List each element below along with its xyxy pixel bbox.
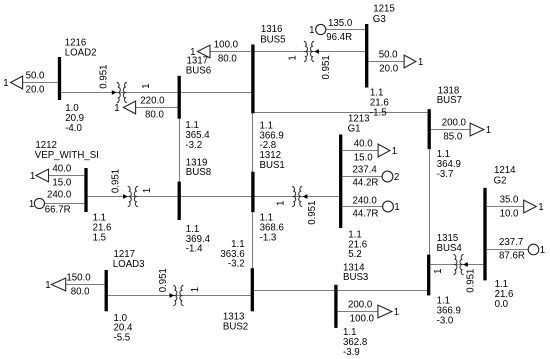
transformer BUS4-G2	[433, 254, 476, 293]
wire BUS6 to BUS8 link	[179, 119, 181, 182]
wire BUS7 to BUS4 link	[429, 149, 431, 254]
svg-text:150.0: 150.0	[66, 273, 91, 284]
svg-text:G2: G2	[494, 175, 507, 186]
svg-text:LOAD3: LOAD3	[113, 259, 145, 270]
load on BUS5	[190, 40, 251, 65]
svg-text:-3.7: -3.7	[437, 169, 454, 180]
svg-text:LOAD2: LOAD2	[65, 47, 97, 58]
svg-text:80.0: 80.0	[218, 54, 237, 65]
svg-text:87.6R: 87.6R	[499, 251, 525, 262]
wire LOAD2 to BUS6 to BUS5	[60, 92, 253, 94]
generator 1 on G2	[487, 237, 545, 262]
svg-text:44.7R: 44.7R	[353, 209, 379, 220]
load on LOAD2	[3, 71, 58, 96]
svg-text:1: 1	[114, 103, 119, 114]
svg-text:1: 1	[29, 199, 34, 210]
svg-text:1: 1	[30, 171, 35, 182]
load on G1	[342, 139, 397, 164]
svg-text:1: 1	[538, 202, 543, 213]
svg-text:BUS1: BUS1	[260, 160, 285, 171]
load on G2	[487, 195, 544, 220]
transformer BUS5-G3	[288, 41, 332, 79]
svg-text:1: 1	[288, 55, 299, 60]
svg-text:BUS2: BUS2	[223, 321, 248, 332]
svg-text:1: 1	[418, 57, 423, 68]
svg-text:1: 1	[141, 83, 152, 88]
svg-text:G3: G3	[373, 14, 386, 25]
svg-text:220.0: 220.0	[140, 96, 165, 107]
svg-text:20.0: 20.0	[26, 85, 45, 96]
svg-text:0.951: 0.951	[99, 64, 110, 88]
svg-text:BUS5: BUS5	[260, 34, 285, 45]
svg-text:-3.0: -3.0	[437, 315, 454, 326]
svg-text:-1.3: -1.3	[260, 233, 277, 244]
svg-text:240.0: 240.0	[47, 190, 72, 201]
bus 1313 BUS2	[220, 239, 254, 332]
transformer VEP-BUS8	[110, 169, 153, 207]
svg-text:0.0: 0.0	[495, 299, 509, 310]
svg-text:1: 1	[190, 287, 201, 292]
wire BUS2 to BUS3 to BUS4	[252, 290, 428, 292]
svg-text:-1.5: -1.5	[370, 107, 387, 118]
svg-text:-5.5: -5.5	[114, 333, 131, 344]
svg-text:135.0: 135.0	[328, 18, 353, 29]
bus 1318 BUS7	[428, 85, 462, 180]
svg-text:96.4R: 96.4R	[326, 32, 352, 43]
svg-text:0.951: 0.951	[110, 169, 121, 193]
generator 1 on G1	[342, 196, 399, 220]
svg-text:1: 1	[3, 78, 8, 89]
svg-text:40.0: 40.0	[52, 164, 71, 175]
svg-text:VEP_WITH_SI: VEP_WITH_SI	[35, 150, 99, 161]
svg-text:35.0: 35.0	[500, 195, 519, 206]
svg-text:44.2R: 44.2R	[353, 177, 379, 188]
bus 1319 BUS8	[178, 158, 212, 255]
svg-text:100.0: 100.0	[350, 314, 375, 325]
svg-text:0.951: 0.951	[465, 269, 476, 293]
generator 1 on G3	[309, 18, 365, 43]
load on G3	[368, 50, 423, 75]
svg-text:1: 1	[190, 47, 195, 58]
load on BUS7	[431, 118, 491, 143]
svg-text:240.0: 240.0	[353, 196, 378, 207]
svg-text:5.2: 5.2	[348, 249, 361, 260]
svg-text:0.951: 0.951	[307, 201, 318, 225]
svg-text:BUS4: BUS4	[437, 243, 463, 254]
bus 1215 G3	[365, 4, 395, 119]
svg-text:15.0: 15.0	[52, 178, 71, 189]
load on LOAD3	[45, 273, 104, 298]
bus 1314 BUS3	[334, 262, 368, 358]
transformer LOAD3-BUS2	[158, 268, 201, 306]
svg-text:G1: G1	[348, 123, 361, 134]
svg-text:1: 1	[486, 125, 491, 136]
svg-text:1: 1	[394, 202, 399, 213]
svg-text:1: 1	[45, 280, 50, 291]
svg-text:1: 1	[276, 201, 287, 206]
wire VEP to BUS8 to BUS1 to G1	[86, 196, 341, 198]
svg-text:200.0: 200.0	[442, 118, 467, 129]
wire BUS5 to BUS1 link	[252, 113, 254, 171]
svg-text:10.0: 10.0	[500, 209, 519, 220]
svg-text:BUS3: BUS3	[343, 272, 368, 283]
bus 1317 BUS6	[178, 56, 212, 151]
transformer LOAD2-BUS6	[99, 64, 152, 102]
generator 1 on VEP_WITH_SI	[29, 190, 84, 216]
svg-text:1: 1	[540, 245, 545, 256]
svg-text:15.0: 15.0	[354, 153, 373, 164]
svg-text:66.7R: 66.7R	[45, 204, 71, 215]
bus 1315 BUS4	[427, 233, 462, 326]
transformer BUS1-G1	[276, 186, 318, 225]
svg-text:1.5: 1.5	[93, 233, 106, 244]
svg-text:1: 1	[142, 188, 153, 193]
svg-text:1: 1	[309, 25, 314, 36]
wire BUS4 to G2	[429, 264, 485, 266]
bus 1216 LOAD2	[58, 38, 97, 134]
svg-text:1: 1	[392, 146, 397, 157]
bus 1212 VEP_WITH_SI	[35, 140, 112, 243]
svg-text:1: 1	[394, 307, 399, 318]
svg-text:0.951: 0.951	[321, 55, 332, 79]
svg-text:BUS8: BUS8	[186, 167, 211, 178]
svg-text:237.4: 237.4	[353, 164, 378, 175]
svg-text:-3.2: -3.2	[228, 259, 245, 270]
svg-text:80.0: 80.0	[145, 110, 164, 121]
wire BUS5 to BUS7	[253, 112, 428, 114]
bus 1214 G2	[483, 165, 516, 310]
generator 2 on G1	[342, 164, 399, 188]
bus 1312 BUS1	[251, 120, 285, 243]
svg-text:50.0: 50.0	[26, 71, 45, 82]
load on BUS6	[114, 96, 177, 121]
svg-text:BUS6: BUS6	[186, 65, 211, 76]
svg-text:40.0: 40.0	[354, 139, 373, 150]
svg-text:50.0: 50.0	[379, 50, 398, 61]
svg-text:85.0: 85.0	[443, 132, 462, 143]
svg-text:237.7: 237.7	[499, 237, 523, 248]
wire BUS5 to G3	[253, 51, 367, 53]
svg-text:20.0: 20.0	[379, 64, 398, 75]
load on BUS3	[338, 300, 400, 325]
svg-text:BUS7: BUS7	[437, 95, 462, 106]
svg-text:1: 1	[433, 269, 444, 274]
bus 1213 G1	[339, 113, 370, 260]
wire BUS1 to BUS2 link	[252, 212, 254, 268]
svg-text:200.0: 200.0	[348, 300, 373, 311]
svg-text:100.0: 100.0	[214, 40, 239, 51]
svg-text:80.0: 80.0	[71, 287, 90, 298]
wire LOAD3 to BUS2	[106, 295, 252, 297]
svg-text:1215: 1215	[373, 4, 395, 15]
bus 1316 BUS5	[251, 24, 285, 113]
bus 1217 LOAD3	[105, 249, 145, 344]
svg-text:-3.2: -3.2	[185, 140, 202, 151]
svg-text:0.951: 0.951	[158, 268, 169, 292]
svg-text:-4.0: -4.0	[65, 123, 82, 134]
svg-text:2: 2	[394, 172, 399, 183]
load on VEP_WITH_SI	[30, 164, 84, 189]
svg-text:-1.4: -1.4	[186, 244, 203, 255]
svg-text:-3.9: -3.9	[343, 347, 360, 358]
